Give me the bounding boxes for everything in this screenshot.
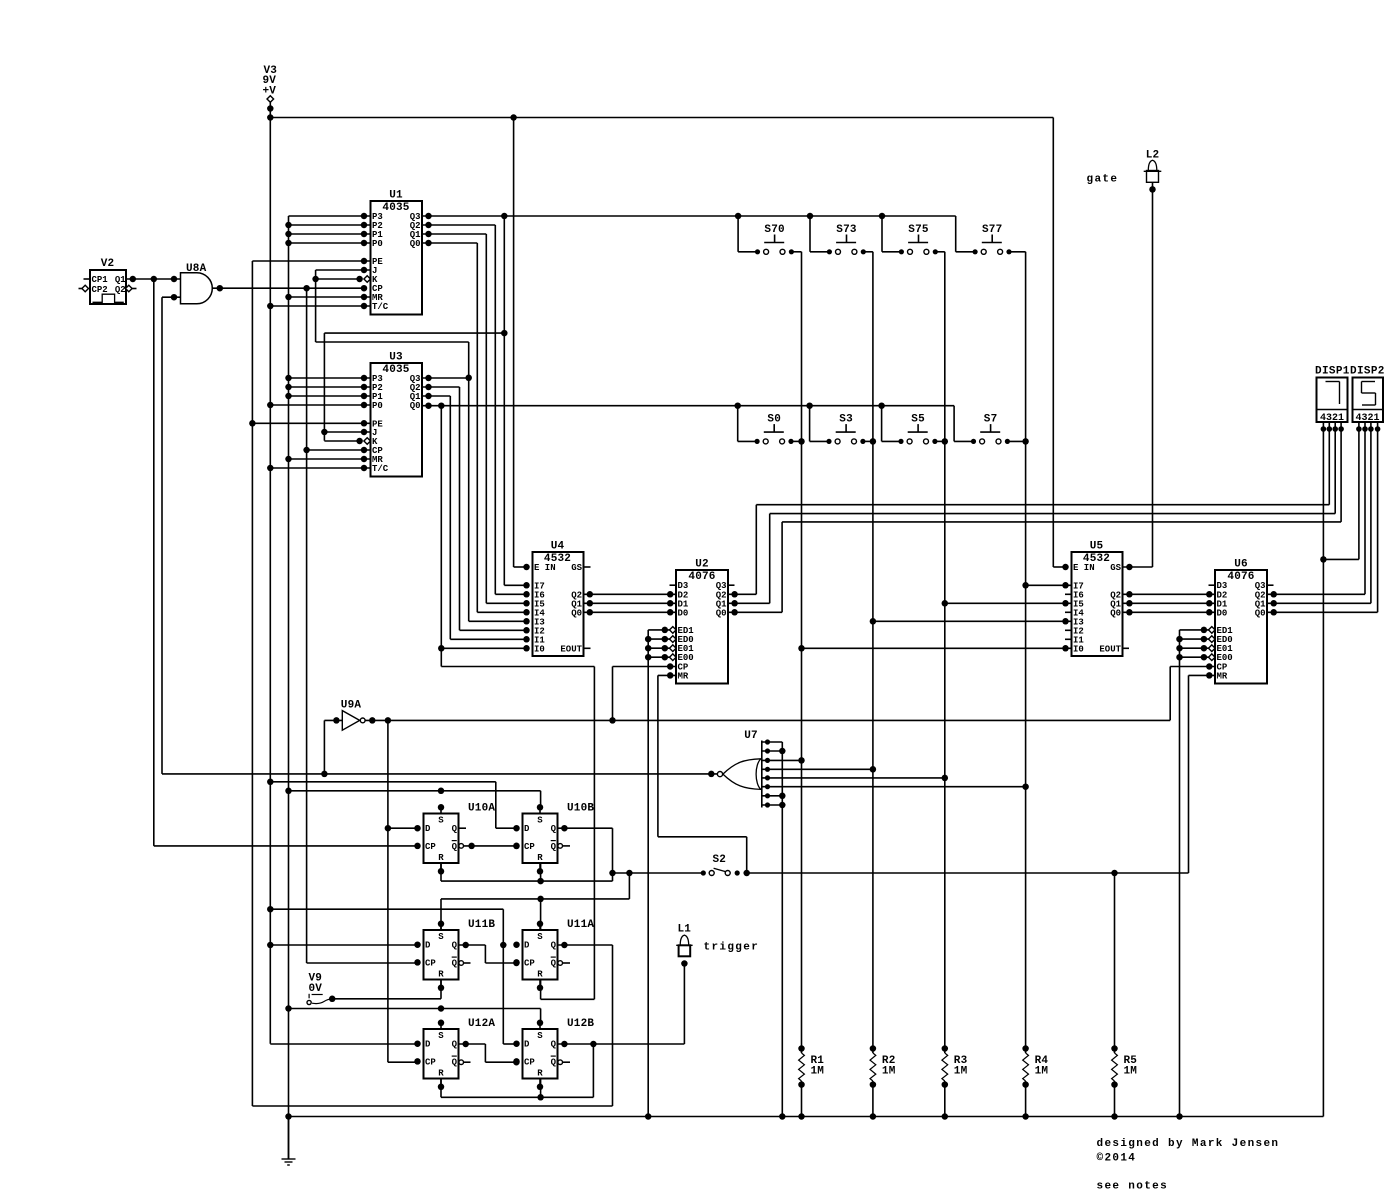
svg-text:T/C: T/C xyxy=(372,302,389,312)
wire U3.Q1 down to U4.I1 xyxy=(422,393,527,640)
wire U8A lower input from U7 output net xyxy=(161,297,163,774)
svg-text:P0: P0 xyxy=(372,239,383,249)
svg-text:U10A: U10A xyxy=(468,803,495,815)
svg-text:U3: U3 xyxy=(389,352,403,364)
svg-text:EOUT: EOUT xyxy=(560,644,582,654)
wire +V rail down to U4.EIN xyxy=(514,118,527,568)
svg-text:S0: S0 xyxy=(767,414,781,426)
wire U10A.Qbar to U10B.CP xyxy=(459,843,520,850)
wire ground bus xyxy=(289,1113,1324,1120)
svg-text:S5: S5 xyxy=(911,414,925,426)
wire U3.MR from ground net xyxy=(289,456,371,463)
wire U9A output trigger clock net xyxy=(365,717,1170,724)
wire U1.J/K to U3.Q3 and U4.I3 xyxy=(316,342,527,621)
quad latch U2 4076 xyxy=(670,559,735,684)
svg-text:U9A: U9A xyxy=(341,700,362,712)
svg-text:D: D xyxy=(425,1040,431,1050)
nor gate U7 xyxy=(717,730,761,808)
wire U6.CP from trigger clock net xyxy=(1170,663,1215,720)
svg-text:Q0: Q0 xyxy=(716,608,727,618)
flip-flop U11B xyxy=(414,919,495,991)
svg-text:U4: U4 xyxy=(551,541,565,553)
wire switch column 3 xyxy=(942,252,949,1049)
svg-text:D: D xyxy=(524,824,530,834)
switch S70 xyxy=(738,216,801,254)
svg-text:U12A: U12A xyxy=(468,1018,495,1030)
wire U2.Q1 to DISP1 pin 2 xyxy=(728,429,1335,607)
svg-text:I0: I0 xyxy=(534,644,545,654)
wire U3.CP from U8A output net xyxy=(303,288,370,963)
wire U5.GS to lamp L2 xyxy=(1123,564,1153,571)
wire V2.Q1 net down to U10A.CP xyxy=(153,279,155,846)
svg-text:4076: 4076 xyxy=(688,571,715,583)
svg-text:S73: S73 xyxy=(836,224,857,236)
svg-text:U5: U5 xyxy=(1090,541,1104,553)
svg-text:Q: Q xyxy=(551,842,557,852)
svg-text:Q: Q xyxy=(452,958,458,968)
svg-text:1M: 1M xyxy=(1124,1066,1138,1078)
svg-text:S75: S75 xyxy=(908,224,929,236)
svg-text:Q1: Q1 xyxy=(115,275,126,285)
wire U1.Q3 to U3.J/K via left jog xyxy=(321,333,504,441)
svg-text:S77: S77 xyxy=(982,224,1002,236)
wire U1.PE from U11A.Q net xyxy=(249,258,370,1106)
wire U1.Q2 down to U4.I6 xyxy=(422,222,527,595)
svg-text:S: S xyxy=(537,932,543,942)
svg-text:CP2: CP2 xyxy=(92,285,108,295)
wire +V branch to U10B.D xyxy=(267,779,517,829)
resistor R4 1M xyxy=(1022,1045,1048,1116)
wire U12B.Qbar stub xyxy=(558,1060,570,1065)
svg-text:D: D xyxy=(425,824,431,834)
wire +V branch to U11A.D and U12B.D xyxy=(267,906,517,1044)
svg-text:R: R xyxy=(438,853,444,863)
svg-text:S: S xyxy=(438,816,444,826)
svg-text:4035: 4035 xyxy=(382,364,409,376)
svg-text:U11B: U11B xyxy=(468,919,495,931)
svg-text:Q: Q xyxy=(452,824,458,834)
wire U3.Q0 to switch row S0 feed xyxy=(422,402,954,409)
svg-text:Q0: Q0 xyxy=(1255,608,1266,618)
flip-flop U10A xyxy=(414,803,495,875)
wire U6.Q1 to DISP2 pin 2 xyxy=(1267,429,1371,607)
svg-text:designed by Mark Jensen: designed by Mark Jensen xyxy=(1097,1138,1280,1150)
wire U1.T/C to +V xyxy=(267,303,370,310)
svg-text:DISP1: DISP1 xyxy=(1315,366,1350,378)
wire U6 enable pins tie to ground net xyxy=(1176,627,1215,1117)
wire U12A.Q to U12B.CP jog xyxy=(459,1041,520,1066)
inverter U9A xyxy=(333,700,375,731)
svg-text:Q2: Q2 xyxy=(115,285,126,295)
resistor R2 1M xyxy=(870,1045,896,1116)
resistor R3 1M xyxy=(942,1045,968,1116)
wire U7 input 5 from column 3 xyxy=(762,775,945,780)
svg-text:CP: CP xyxy=(425,1057,436,1067)
wire U11B.CP from U8A output net xyxy=(307,962,418,964)
switch S2 xyxy=(609,854,750,876)
display DISP1 xyxy=(1315,366,1350,432)
svg-text:CP: CP xyxy=(425,842,436,852)
wire U10/U10B S tie to ground net xyxy=(289,788,541,808)
wire U8A output to U1.CP xyxy=(212,285,364,292)
wire U10A.D pin xyxy=(388,827,418,829)
svg-text:E IN: E IN xyxy=(534,563,556,573)
wire U1.J K tie xyxy=(312,267,370,342)
wire U2.MR from S2 net xyxy=(658,672,747,873)
wire U2.CP from trigger clock net xyxy=(613,663,677,720)
and gate U8A xyxy=(162,263,212,304)
switch S5 xyxy=(882,406,948,445)
svg-text:S3: S3 xyxy=(839,414,853,426)
wire U9A input from U7 output net xyxy=(324,720,342,774)
shift register U3 4035 xyxy=(371,352,423,477)
wire U5.Q0 to U6.D0 xyxy=(1123,609,1216,616)
clock source V2 xyxy=(79,258,137,304)
resistor R1 1M xyxy=(798,1045,824,1116)
svg-text:1M: 1M xyxy=(882,1066,896,1078)
wire +V rail down to U5.EIN xyxy=(1053,118,1065,568)
svg-text:R: R xyxy=(438,969,444,979)
svg-text:U10B: U10B xyxy=(567,803,594,815)
flip-flop U10B xyxy=(513,803,594,875)
quad latch U6 4076 xyxy=(1209,559,1274,684)
svg-text:GS: GS xyxy=(1110,563,1121,573)
wire U9A output branch to U10A.D and U12A.CP xyxy=(385,720,392,1062)
svg-text:Q: Q xyxy=(551,1040,557,1050)
switch S77 xyxy=(956,216,1026,254)
svg-text:Q: Q xyxy=(551,941,557,951)
svg-text:T/C: T/C xyxy=(372,464,389,474)
wire U4.Q0 to U2.D0 xyxy=(584,609,677,616)
svg-text:Q0: Q0 xyxy=(571,608,582,618)
svg-text:Q0: Q0 xyxy=(410,239,421,249)
svg-text:D0: D0 xyxy=(1217,608,1228,618)
wire U5.I0 from switch column 1 xyxy=(802,647,1072,649)
wire U7 output to U9A/U8A feedback net xyxy=(162,771,717,778)
svg-text:MR: MR xyxy=(678,671,689,681)
wire U4.Q2 to U2.D2 xyxy=(584,591,677,598)
flip-flop U12A xyxy=(414,1018,495,1090)
svg-text:Q: Q xyxy=(551,824,557,834)
wire U7 unused inputs tie to ground xyxy=(762,739,786,1116)
wire +V rail left vertical xyxy=(269,118,271,1044)
svg-text:S: S xyxy=(438,1031,444,1041)
svg-text:U7: U7 xyxy=(744,730,758,742)
wire U5.Q1 to U6.D1 xyxy=(1123,600,1216,607)
priority encoder U5 4532 xyxy=(1062,541,1129,657)
wire U3.PE junction xyxy=(252,420,370,427)
wire U1.Q3 to switch row S70 feed xyxy=(422,213,956,220)
svg-text:EOUT: EOUT xyxy=(1099,644,1121,654)
svg-text:Q: Q xyxy=(452,842,458,852)
svg-text:U6: U6 xyxy=(1234,559,1248,571)
wire U10B.Q down to S2 net xyxy=(558,825,613,873)
source V9 0V xyxy=(307,973,335,1005)
svg-text:4076: 4076 xyxy=(1227,571,1254,583)
wire U3.J K tie xyxy=(324,429,370,445)
wire S2 right to R5 and U6.MR xyxy=(747,870,1189,1049)
wire U3.Q0 down to U4.I0 and U2.CP xyxy=(438,406,594,1000)
wire switch column 2 xyxy=(870,252,877,1049)
wire U7 input 3 from column 1 xyxy=(762,758,802,763)
svg-text:R: R xyxy=(537,1068,543,1078)
wire switch column 4 xyxy=(1022,252,1029,1049)
wire U11A.Q to U1/U3 PE net xyxy=(252,942,612,1106)
wire U3.Q2 down to U4.I2 xyxy=(422,384,527,631)
switch S3 xyxy=(810,406,877,445)
wire U10 reset net to S2 junction xyxy=(441,863,613,884)
svg-text:U1: U1 xyxy=(389,190,403,202)
wire DISP pins 4 tie to ground xyxy=(1320,429,1359,1117)
svg-text:U12B: U12B xyxy=(567,1018,594,1030)
svg-text:trigger: trigger xyxy=(704,942,760,954)
wire U2.Q0 to DISP1 pin 1 xyxy=(728,429,1341,616)
svg-text:1M: 1M xyxy=(811,1066,825,1078)
svg-text:S7: S7 xyxy=(984,414,998,426)
svg-text:E IN: E IN xyxy=(1073,563,1095,573)
wire U6.Q0 to DISP2 pin 1 xyxy=(1267,429,1378,616)
svg-text:D: D xyxy=(524,1040,530,1050)
svg-text:S: S xyxy=(438,932,444,942)
svg-text:U2: U2 xyxy=(695,559,709,571)
svg-text:R: R xyxy=(537,969,543,979)
svg-text:CP: CP xyxy=(524,1057,535,1067)
svg-text:Q0: Q0 xyxy=(410,401,421,411)
wire U11 S tie to S2 net xyxy=(441,873,629,930)
wire +V branch to U12A.D xyxy=(270,1043,417,1045)
resistor R5 1M xyxy=(1111,1045,1137,1116)
wire U10A.Q stub xyxy=(459,827,467,829)
wire switch column 1 xyxy=(798,252,805,1049)
wire U3 presets P3-P1 from ground net xyxy=(289,375,371,400)
wire U11B.Qbar stub xyxy=(459,961,471,966)
svg-text:Q: Q xyxy=(551,1057,557,1067)
wire ground net vertical (U1/U3 presets and MR) xyxy=(285,216,292,1159)
switch S0 xyxy=(738,406,805,445)
svg-text:DISP2: DISP2 xyxy=(1350,366,1385,378)
switch S75 xyxy=(882,216,945,254)
flip-flop U11A xyxy=(513,919,594,991)
svg-text:S2: S2 xyxy=(712,854,726,866)
svg-text:D0: D0 xyxy=(678,608,689,618)
wire U12 reset net xyxy=(441,1079,593,1101)
wire U1 parallel inputs P3-P0 tie xyxy=(285,213,370,247)
svg-text:S70: S70 xyxy=(764,224,784,236)
wire U2 enable pins tie to ground net xyxy=(645,627,676,1117)
flip-flop U12B xyxy=(513,1018,594,1090)
wire V9 to U11B.R xyxy=(332,980,441,999)
wire U5.I3 from switch column 2 xyxy=(873,620,1072,622)
wire U7 input 4 from column 2 xyxy=(762,767,873,772)
svg-text:Q: Q xyxy=(452,1057,458,1067)
wire U1.Q3 down to U4.I7 xyxy=(501,216,526,585)
svg-text:Q0: Q0 xyxy=(1110,608,1121,618)
wire U12 S tie to ground net xyxy=(289,1005,541,1023)
svg-text:R: R xyxy=(537,853,543,863)
wire U5.I5 from switch column 3 xyxy=(945,602,1072,604)
wire V2.Q1 to U8A input xyxy=(126,276,181,283)
wire U11A.Qbar stub xyxy=(558,961,570,966)
svg-text:CP1: CP1 xyxy=(92,275,109,285)
svg-text:P0: P0 xyxy=(372,401,383,411)
svg-text:0V: 0V xyxy=(309,983,323,995)
wire U11B.Q to U11A.CP jog xyxy=(459,942,520,967)
priority encoder U4 4532 xyxy=(523,541,590,657)
wire U11A.R from U3.Q0 net xyxy=(541,980,595,1000)
wire U3.T/C from +V xyxy=(267,465,370,472)
wire U6.Q2 to DISP2 pin 3 xyxy=(1267,429,1365,598)
svg-text:S: S xyxy=(537,816,543,826)
svg-text:V2: V2 xyxy=(101,258,115,270)
wire U12B.Q to lamp L1 and U12 reset net xyxy=(558,964,685,1098)
svg-text:MR: MR xyxy=(1217,671,1228,681)
wire U4.Q1 to U2.D1 xyxy=(584,600,677,607)
svg-text:CP: CP xyxy=(425,958,436,968)
svg-text:see notes: see notes xyxy=(1097,1181,1169,1193)
lamp L1 trigger xyxy=(676,924,692,967)
svg-text:©2014: ©2014 xyxy=(1097,1153,1137,1165)
wire U3.P0 from +V xyxy=(267,402,370,409)
lamp L2 gate xyxy=(1144,150,1162,568)
ground symbol xyxy=(282,1117,296,1166)
wire U7 input 6 from column 4 xyxy=(762,784,1026,789)
wire U10A.CP from V2.Q1 net xyxy=(154,845,418,847)
wire U1.Q0 down to U4.I4 xyxy=(422,240,527,613)
wire U12A.CP from U9A branch xyxy=(388,1061,418,1063)
wire U1.MR to ground net xyxy=(289,294,371,301)
svg-text:I0: I0 xyxy=(1073,644,1084,654)
wire U3.Q3 pin xyxy=(422,375,469,382)
svg-text:GS: GS xyxy=(571,563,582,573)
svg-text:Q: Q xyxy=(551,958,557,968)
wire U12A.Qbar stub xyxy=(459,1060,471,1065)
switch S7 xyxy=(954,406,1029,445)
shift register U1 4035 xyxy=(371,190,423,315)
power source V3 9V +V xyxy=(263,65,278,121)
wire U1.Q1 down to U4.I5 xyxy=(422,231,527,604)
display DISP2 xyxy=(1350,366,1385,432)
svg-text:D: D xyxy=(524,941,530,951)
wire U5.I7 from switch column 4 xyxy=(1026,584,1072,586)
wire U10B.Qbar stub xyxy=(558,844,570,849)
wire U5.Q2 to U6.D2 xyxy=(1123,591,1216,598)
svg-text:gate: gate xyxy=(1087,174,1119,186)
svg-text:1M: 1M xyxy=(1035,1066,1049,1078)
svg-text:S: S xyxy=(537,1031,543,1041)
wire +V rail top xyxy=(270,114,1053,121)
wire U1.CP pin dot xyxy=(361,285,368,292)
svg-text:Q: Q xyxy=(452,1040,458,1050)
svg-text:1M: 1M xyxy=(954,1066,968,1078)
wire +V branch to U11B.D xyxy=(267,942,417,949)
svg-text:CP: CP xyxy=(524,842,535,852)
svg-text:D: D xyxy=(425,941,431,951)
svg-text:U11A: U11A xyxy=(567,919,594,931)
switch S73 xyxy=(810,216,873,254)
svg-text:R: R xyxy=(438,1068,444,1078)
svg-text:L1: L1 xyxy=(677,924,691,936)
wire U2.Q2 to DISP1 pin 3 xyxy=(728,429,1329,598)
svg-text:CP: CP xyxy=(524,958,535,968)
svg-text:4035: 4035 xyxy=(382,202,409,214)
wire U6.MR from S2 net xyxy=(1189,672,1216,873)
svg-text:Q: Q xyxy=(452,941,458,951)
